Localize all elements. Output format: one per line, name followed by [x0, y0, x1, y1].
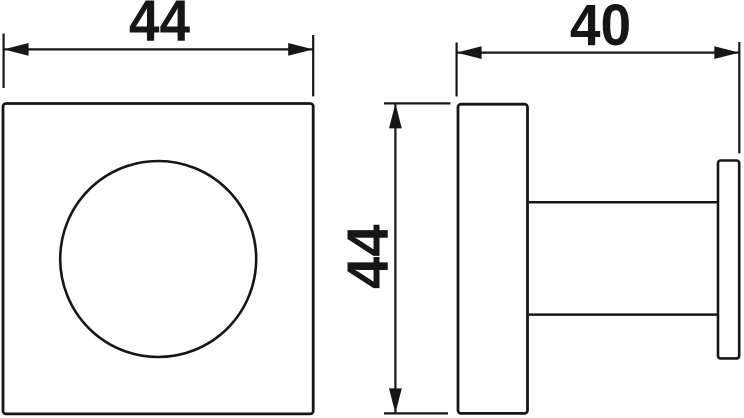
svg-text:40: 40: [570, 0, 631, 57]
svg-text:44: 44: [129, 0, 191, 53]
svg-text:44: 44: [336, 225, 401, 290]
